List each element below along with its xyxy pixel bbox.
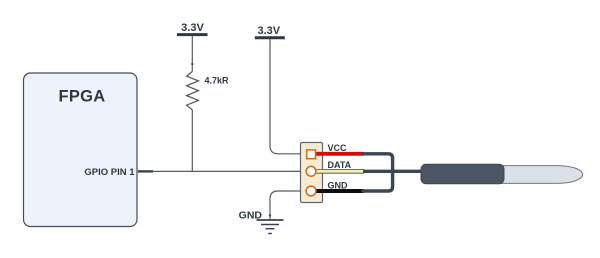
svg-text:4.7kR: 4.7kR — [205, 76, 230, 86]
connector J1 body — [301, 143, 323, 203]
pin 3 GND circle — [306, 186, 316, 196]
wire 3.3V rail to VCC pin — [270, 39, 307, 154]
wire 3.3V bar to resistor R1 — [191, 36, 193, 72]
svg-text:3.3V: 3.3V — [257, 25, 280, 37]
cable wire DATA and combined cable to probe — [363, 170, 424, 173]
resistor R1 — [187, 72, 199, 110]
node terminal dot — [191, 63, 193, 65]
pin 1 VCC square — [307, 150, 316, 159]
svg-text:FPGA: FPGA — [58, 88, 105, 106]
svg-text:VCC: VCC — [328, 143, 348, 153]
wire resistor R1 to GPIO wire — [191, 110, 193, 172]
pin stub GPIO PIN 1 — [138, 170, 153, 172]
power 3.3V bar (left rail) — [177, 33, 208, 36]
wire GPIO to DATA pin — [153, 170, 306, 172]
wire cream DATA core — [315, 170, 364, 173]
power 3.3V bar (right rail) — [255, 36, 285, 39]
wire black GND — [315, 189, 365, 193]
probe cable sleeve — [421, 164, 504, 183]
probe tube — [500, 166, 583, 184]
ground symbol — [257, 220, 284, 234]
FPGA block — [24, 73, 138, 227]
wire red VCC — [315, 152, 365, 156]
svg-text:GPIO PIN 1: GPIO PIN 1 — [84, 167, 135, 178]
cable wire VCC to junction — [363, 154, 393, 172]
svg-text:GND: GND — [328, 181, 349, 191]
cable wire GND to junction — [363, 171, 393, 191]
pin 2 DATA circle — [306, 166, 316, 176]
svg-text:DATA: DATA — [328, 160, 352, 170]
node ground wire endpoint dot — [269, 214, 271, 216]
svg-text:3.3V: 3.3V — [181, 22, 204, 34]
wire cream DATA outline — [315, 169, 365, 174]
wire GND pin to ground — [270, 191, 307, 219]
